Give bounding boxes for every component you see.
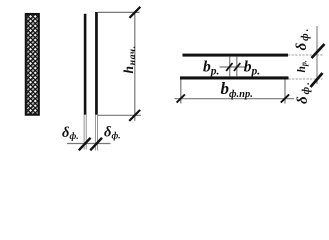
vertical dimension line right chain <box>316 26 318 84</box>
rib right wall <box>236 57 238 77</box>
bottom flange (right figure) <box>180 76 289 79</box>
tick top right chain <box>312 44 325 58</box>
left skin plate <box>84 14 87 115</box>
tick at left plate <box>79 138 91 151</box>
svg-text:bф.пр.: bф.пр. <box>221 79 253 100</box>
tick at right plate <box>90 138 102 151</box>
tick right b_f.pr <box>281 94 289 102</box>
bottom extension line h_nach <box>98 114 141 116</box>
svg-text:δф.: δф. <box>294 27 311 51</box>
extension line left b_f.pr <box>180 80 182 104</box>
svg-text:bр.: bр. <box>244 58 260 77</box>
b_p dimension line <box>220 66 246 68</box>
top flange (right figure) <box>183 54 289 57</box>
b_f.pr dimension line <box>175 98 295 100</box>
dimension line delta_f bottom (middle figure) <box>67 143 111 145</box>
tick top h_nach <box>130 7 141 18</box>
tick bottom h_nach <box>129 110 140 121</box>
right ext line bottom flange <box>289 78 323 80</box>
vertical dimension line h_nach <box>134 12 136 121</box>
svg-text:δф.: δф. <box>104 125 121 142</box>
right skin plate <box>95 12 98 115</box>
svg-text:hнач.: hнач. <box>121 45 138 73</box>
svg-text:hр.: hр. <box>296 60 309 72</box>
rib left wall <box>229 57 231 77</box>
plywood sheet bar (hatched) <box>27 15 39 114</box>
tick at rib right <box>234 63 240 71</box>
svg-text:δф.: δф. <box>295 80 312 104</box>
extension line right b_f.pr <box>284 80 286 104</box>
right ext line top flange <box>288 54 323 56</box>
svg-text:bр.: bр. <box>203 58 219 77</box>
tick at rib left <box>226 63 232 71</box>
extension lines below left plate (both edges) <box>83 115 85 150</box>
extension lines below right plate (both edges) <box>94 115 96 151</box>
svg-text:δф.: δф. <box>62 125 79 142</box>
tick left b_f.pr <box>177 94 185 102</box>
tick bottom right chain <box>311 73 323 87</box>
top extension line h_nach <box>98 11 140 13</box>
